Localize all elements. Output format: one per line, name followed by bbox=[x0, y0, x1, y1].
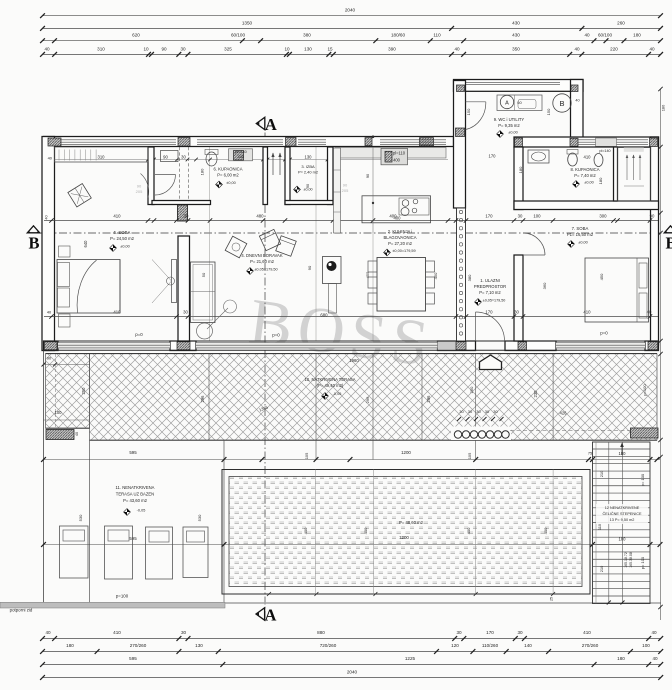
bedroom7 wardrobe bbox=[618, 148, 651, 202]
svg-text:300: 300 bbox=[599, 214, 607, 219]
svg-text:30: 30 bbox=[181, 154, 186, 159]
svg-text:p=0: p=0 bbox=[135, 332, 143, 337]
dim line y545.5 bbox=[44, 544, 661, 546]
svg-text:±0,00: ±0,00 bbox=[226, 181, 235, 185]
svg-text:12 NENATKRIVENE: 12 NENATKRIVENE bbox=[605, 506, 640, 510]
svg-text:60/100: 60/100 bbox=[231, 33, 245, 38]
svg-text:P= 7,40 m2: P= 7,40 m2 bbox=[574, 173, 596, 178]
wall hall / bedroom7 bbox=[514, 255, 523, 341]
svg-text:640: 640 bbox=[83, 240, 88, 248]
svg-text:30: 30 bbox=[517, 630, 523, 635]
bathroom6 sink bbox=[206, 152, 217, 166]
svg-text:430: 430 bbox=[512, 33, 520, 38]
svg-text:30: 30 bbox=[184, 214, 189, 219]
svg-text:30: 30 bbox=[493, 409, 498, 414]
svg-text:296: 296 bbox=[200, 395, 205, 403]
svg-text:410: 410 bbox=[583, 310, 591, 315]
hatched pillar column band (hall west, dotted) bbox=[457, 208, 466, 341]
svg-text:±0,00: ±0,00 bbox=[508, 131, 517, 135]
armchair 2 bbox=[276, 236, 297, 257]
svg-text:110/260: 110/260 bbox=[482, 643, 499, 648]
svg-text:40: 40 bbox=[649, 46, 655, 51]
svg-text:130: 130 bbox=[305, 154, 313, 159]
svg-text:450: 450 bbox=[599, 273, 604, 280]
south glazing lines bbox=[58, 342, 170, 344]
svg-text:105: 105 bbox=[304, 453, 309, 460]
svg-text:40: 40 bbox=[575, 99, 579, 103]
svg-text:P= 48,60 m2: P= 48,60 m2 bbox=[399, 520, 424, 525]
svg-text:P1= 16,50 m2: P1= 16,50 m2 bbox=[567, 232, 594, 237]
svg-text:40: 40 bbox=[454, 46, 460, 51]
svg-text:10. NATKRIVENA TERASA: 10. NATKRIVENA TERASA bbox=[304, 377, 355, 382]
svg-text:P= 43,60 m2: P= 43,60 m2 bbox=[123, 498, 148, 503]
pool inner water bbox=[229, 477, 582, 587]
svg-text:165.18.72: 165.18.72 bbox=[624, 552, 628, 568]
wall bath8 south / bedroom7 north bbox=[514, 201, 659, 210]
svg-text:pl=140: pl=140 bbox=[599, 149, 610, 153]
svg-text:75: 75 bbox=[588, 451, 592, 456]
svg-text:5. SOBA: 5. SOBA bbox=[114, 230, 131, 235]
svg-text:400: 400 bbox=[466, 527, 471, 534]
svg-text:410: 410 bbox=[113, 214, 121, 219]
fireplace bbox=[323, 257, 342, 284]
retaining wall gray band bbox=[0, 602, 225, 608]
bathroom8 sink bbox=[528, 150, 549, 163]
bottom dimension row A bbox=[43, 638, 661, 640]
kitchen top counter bbox=[335, 148, 446, 159]
svg-text:296: 296 bbox=[365, 396, 370, 403]
svg-text:90: 90 bbox=[137, 184, 142, 189]
utility north glazing bbox=[466, 81, 560, 83]
svg-text:530: 530 bbox=[78, 514, 83, 521]
svg-text:120: 120 bbox=[451, 643, 459, 648]
wall bath8 east bbox=[614, 147, 618, 201]
svg-text:150: 150 bbox=[466, 108, 471, 115]
svg-text:880: 880 bbox=[317, 630, 325, 635]
svg-text:60/100: 60/100 bbox=[598, 33, 612, 38]
bathroom8 toilet bbox=[568, 153, 578, 166]
svg-text:40: 40 bbox=[574, 46, 580, 51]
terrace appendix lines bbox=[44, 364, 91, 366]
svg-text:30: 30 bbox=[514, 310, 519, 315]
bedroom5 bed bbox=[57, 260, 120, 314]
svg-text:426: 426 bbox=[560, 411, 568, 416]
pool area left boundary bbox=[223, 440, 225, 602]
interior dim line y220.5 bbox=[44, 220, 658, 222]
svg-text:11. NENATKRIVENA: 11. NENATKRIVENA bbox=[116, 485, 155, 490]
kitchen tall cabinets bbox=[334, 148, 341, 233]
wall exterior west bbox=[42, 137, 55, 351]
bedroom7 bed bbox=[585, 258, 649, 322]
svg-text:205: 205 bbox=[342, 188, 349, 193]
svg-text:7. SOBA: 7. SOBA bbox=[572, 226, 589, 231]
interior sill dim line y159.5 bbox=[55, 159, 449, 161]
svg-text:270/260: 270/260 bbox=[130, 643, 147, 648]
stairs labels bbox=[596, 504, 648, 524]
svg-text:P= 2,40 m2: P= 2,40 m2 bbox=[298, 170, 318, 175]
svg-text:30: 30 bbox=[468, 409, 473, 414]
wall bedroom5 / living bbox=[178, 236, 190, 341]
hatched block right bbox=[631, 428, 659, 438]
svg-text:3. IZBA: 3. IZBA bbox=[301, 164, 315, 169]
svg-text:205: 205 bbox=[136, 189, 143, 194]
pool outer bbox=[222, 470, 590, 595]
svg-text:(P= 49,40 m2): (P= 49,40 m2) bbox=[317, 383, 344, 388]
svg-text:230: 230 bbox=[533, 390, 538, 398]
wall columns (hatched) bbox=[48, 138, 61, 146]
svg-text:p=0: p=0 bbox=[600, 331, 608, 336]
wall corridor / bedroom5 bbox=[148, 147, 154, 205]
svg-text:180: 180 bbox=[598, 177, 603, 184]
north glazing windows bbox=[60, 139, 176, 141]
svg-text:40: 40 bbox=[45, 630, 51, 635]
svg-text:455: 455 bbox=[365, 271, 370, 278]
entrance arrow bbox=[480, 355, 502, 370]
svg-text:110: 110 bbox=[433, 33, 441, 38]
svg-text:A: A bbox=[265, 605, 277, 624]
svg-text:380: 380 bbox=[467, 274, 472, 281]
bottom dimension row C bbox=[43, 664, 661, 666]
svg-text:170: 170 bbox=[486, 630, 494, 635]
svg-text:180: 180 bbox=[617, 656, 625, 661]
svg-text:250: 250 bbox=[469, 386, 474, 393]
svg-text:180/60: 180/60 bbox=[391, 33, 405, 38]
overhead beam projection (dashed) bbox=[179, 147, 181, 202]
svg-text:±0,00=179,59: ±0,00=179,59 bbox=[392, 249, 415, 253]
grid line x475.7 bbox=[475, 354, 477, 460]
pool grid lines bbox=[314, 470, 316, 595]
svg-text:B: B bbox=[28, 233, 39, 252]
svg-text:P= 21,60 m2: P= 21,60 m2 bbox=[250, 259, 275, 264]
svg-text:±0,00: ±0,00 bbox=[304, 188, 313, 192]
svg-text:170: 170 bbox=[485, 214, 493, 219]
svg-text:4. DNEVNI BORAVAK: 4. DNEVNI BORAVAK bbox=[241, 253, 282, 258]
svg-text:B: B bbox=[665, 233, 672, 252]
svg-text:450: 450 bbox=[433, 272, 438, 279]
TV on wall bbox=[172, 260, 177, 303]
svg-text:100: 100 bbox=[642, 643, 650, 648]
svg-text:325: 325 bbox=[224, 46, 232, 51]
svg-text:130: 130 bbox=[195, 643, 203, 648]
bottom dimension row D bbox=[43, 677, 661, 679]
svg-text:595: 595 bbox=[129, 450, 137, 455]
washing machine A bbox=[500, 95, 513, 108]
svg-text:P= 9,35 m2: P= 9,35 m2 bbox=[498, 123, 520, 128]
kitchen niche pl110 bbox=[381, 148, 408, 164]
svg-text:P= 6,00 m2: P= 6,00 m2 bbox=[217, 173, 239, 178]
bottom dimension row B bbox=[43, 651, 661, 653]
svg-text:6. KUPAONICA: 6. KUPAONICA bbox=[213, 167, 242, 172]
wall hall west upper bbox=[514, 147, 523, 210]
svg-text:410: 410 bbox=[113, 630, 121, 635]
section marker B right bbox=[664, 226, 672, 233]
svg-text:TERASA UZ BAZEN: TERASA UZ BAZEN bbox=[116, 492, 154, 497]
south wall continuous edges bbox=[44, 340, 659, 342]
svg-text:270/260: 270/260 bbox=[582, 643, 599, 648]
svg-text:90: 90 bbox=[307, 265, 312, 270]
wall exterior north (right block) bbox=[514, 137, 659, 147]
svg-text:296: 296 bbox=[426, 395, 431, 403]
sun loungers bbox=[60, 526, 89, 578]
svg-text:140: 140 bbox=[524, 643, 532, 648]
bedroom5 wardrobe bbox=[55, 147, 149, 162]
svg-text:530: 530 bbox=[197, 514, 202, 521]
wall bathroom6 south bbox=[152, 201, 211, 205]
svg-text:p=100: p=100 bbox=[116, 594, 129, 599]
svg-text:165.38.08: 165.38.08 bbox=[629, 552, 633, 568]
svg-text:680: 680 bbox=[320, 313, 328, 318]
svg-text:180: 180 bbox=[633, 33, 641, 38]
bedroom5 shelf box bbox=[161, 151, 179, 162]
armchair 3 bbox=[225, 236, 247, 258]
top dimension row 3 bbox=[43, 40, 661, 42]
svg-text:400: 400 bbox=[393, 158, 401, 163]
svg-text:1200: 1200 bbox=[399, 535, 409, 540]
svg-text:390: 390 bbox=[388, 46, 396, 51]
hatched block left bbox=[46, 430, 74, 440]
svg-text:310: 310 bbox=[97, 46, 105, 51]
svg-text:260: 260 bbox=[617, 20, 625, 25]
svg-text:180: 180 bbox=[518, 166, 523, 173]
svg-text:410: 410 bbox=[584, 155, 592, 160]
svg-text:430: 430 bbox=[512, 20, 520, 25]
svg-text:30: 30 bbox=[456, 630, 462, 635]
section line A-A vertical bbox=[264, 118, 266, 618]
stairs treads bbox=[593, 448, 651, 450]
svg-text:180: 180 bbox=[661, 104, 666, 111]
svg-text:30: 30 bbox=[183, 310, 188, 315]
svg-text:110: 110 bbox=[597, 523, 602, 530]
svg-text:90: 90 bbox=[650, 214, 655, 219]
stairs up arrow bbox=[621, 444, 623, 455]
svg-text:480: 480 bbox=[256, 214, 264, 219]
grid line x316 bbox=[315, 354, 317, 460]
section marker A top bbox=[256, 117, 265, 129]
svg-text:2040: 2040 bbox=[345, 8, 356, 13]
svg-text:±0,00: ±0,00 bbox=[584, 181, 593, 185]
entrance door arc bbox=[476, 312, 505, 341]
wall exterior north (left block) bbox=[44, 137, 454, 147]
svg-text:10: 10 bbox=[143, 46, 149, 51]
bathroom6 niche pl140 bbox=[229, 149, 253, 161]
svg-text:P= 27,20 m2: P= 27,20 m2 bbox=[388, 241, 413, 246]
svg-text:p= 100: p= 100 bbox=[640, 473, 645, 486]
svg-text:pl=140: pl=140 bbox=[235, 150, 247, 154]
svg-text:90: 90 bbox=[343, 183, 348, 188]
sliding door gray panel bbox=[438, 342, 460, 351]
plot west boundary bbox=[43, 351, 45, 608]
svg-text:ČELIČNE STEPENICE: ČELIČNE STEPENICE bbox=[602, 511, 642, 516]
dining table bbox=[377, 258, 426, 312]
svg-text:9. WC i UTILITY: 9. WC i UTILITY bbox=[494, 117, 525, 122]
utility counter bbox=[497, 95, 542, 111]
grid line x422 bbox=[421, 354, 423, 440]
svg-text:±0,00: ±0,00 bbox=[578, 241, 587, 245]
svg-text:30: 30 bbox=[181, 630, 187, 635]
radiator arrows bbox=[272, 153, 274, 175]
svg-text:±0,05=179,50: ±0,05=179,50 bbox=[254, 268, 277, 272]
svg-text:40: 40 bbox=[651, 630, 657, 635]
svg-text:180: 180 bbox=[66, 643, 74, 648]
svg-text:1960: 1960 bbox=[349, 358, 359, 363]
interior dim line y316.5 bbox=[44, 316, 658, 318]
svg-text:310: 310 bbox=[98, 154, 106, 159]
drainage circles row bbox=[451, 427, 511, 441]
svg-text:400: 400 bbox=[303, 527, 308, 534]
svg-text:410: 410 bbox=[583, 630, 591, 635]
armchair 1 bbox=[259, 229, 280, 250]
svg-text:30: 30 bbox=[518, 214, 523, 219]
svg-text:140: 140 bbox=[238, 155, 244, 159]
floor lamp bbox=[207, 308, 228, 329]
svg-text:720/260: 720/260 bbox=[320, 643, 337, 648]
svg-text:p= 100: p= 100 bbox=[640, 556, 645, 569]
top dimension row 4 bbox=[43, 53, 661, 55]
svg-text:360: 360 bbox=[542, 282, 547, 289]
svg-text:40: 40 bbox=[75, 432, 79, 436]
bedroom5 plant chair bbox=[68, 184, 91, 207]
svg-text:-0,05: -0,05 bbox=[137, 509, 146, 513]
svg-text:40: 40 bbox=[647, 310, 652, 315]
svg-text:1200: 1200 bbox=[401, 450, 411, 455]
bathroom6 door arc bbox=[155, 174, 176, 176]
svg-text:±0,05=179,50: ±0,05=179,50 bbox=[483, 299, 506, 303]
svg-text:PREDPROSTOR: PREDPROSTOR bbox=[474, 284, 506, 289]
svg-text:10: 10 bbox=[284, 46, 290, 51]
svg-text:90: 90 bbox=[161, 46, 167, 51]
stairs outline bbox=[593, 442, 651, 604]
svg-text:15: 15 bbox=[327, 46, 333, 51]
svg-text:30: 30 bbox=[485, 409, 490, 414]
south glazing gray fill bbox=[58, 343, 170, 349]
svg-text:100: 100 bbox=[533, 214, 541, 219]
wall bathroom6 east bbox=[263, 147, 268, 205]
svg-text:400: 400 bbox=[394, 216, 402, 221]
wall izba east bbox=[328, 147, 334, 205]
top dimension row 1 (2040) bbox=[43, 15, 661, 17]
svg-text:250: 250 bbox=[81, 387, 86, 395]
svg-text:210: 210 bbox=[599, 470, 604, 477]
grid line x373 bbox=[372, 354, 374, 460]
svg-text:p=0: p=0 bbox=[272, 333, 280, 338]
svg-text:P= 24,50 m2: P= 24,50 m2 bbox=[110, 236, 135, 241]
wall izba west bbox=[285, 147, 290, 205]
svg-text:1. ULAZNI: 1. ULAZNI bbox=[480, 278, 500, 283]
wall exterior east bbox=[651, 137, 659, 345]
svg-text:8. KUPAONICA: 8. KUPAONICA bbox=[570, 167, 599, 172]
svg-text:BLAGOVAONICA: BLAGOVAONICA bbox=[384, 235, 417, 240]
inner boundary x89.5 bbox=[89, 440, 91, 607]
section line B-B horizontal bbox=[30, 232, 668, 234]
east boundary line bbox=[660, 89, 662, 620]
svg-text:±0,00: ±0,00 bbox=[120, 245, 129, 249]
svg-text:p=100: p=100 bbox=[642, 384, 647, 396]
svg-text:220: 220 bbox=[610, 46, 618, 51]
wall utility block east bbox=[571, 80, 584, 147]
wall utility block north bbox=[454, 80, 584, 92]
svg-text:P= 7,10 m2: P= 7,10 m2 bbox=[479, 290, 501, 295]
svg-text:100: 100 bbox=[55, 410, 63, 415]
bathroom8 bidet bbox=[594, 154, 603, 167]
bedroom7 door arc bbox=[523, 254, 545, 256]
grid line x553 bbox=[552, 354, 554, 440]
bedroom5 door arc small bbox=[141, 174, 149, 198]
svg-text:595: 595 bbox=[129, 536, 137, 541]
svg-text:170: 170 bbox=[489, 154, 497, 159]
svg-text:30: 30 bbox=[476, 409, 481, 414]
svg-text:13 P= 9,50 m2: 13 P= 9,50 m2 bbox=[610, 518, 635, 522]
svg-text:400: 400 bbox=[543, 527, 548, 534]
section marker A bottom bbox=[256, 608, 265, 620]
svg-text:210: 210 bbox=[599, 565, 604, 572]
grid line x209 bbox=[208, 354, 210, 440]
svg-text:25: 25 bbox=[550, 597, 554, 601]
svg-text:30: 30 bbox=[180, 46, 186, 51]
svg-text:1350: 1350 bbox=[242, 20, 253, 25]
top dimension row 2 bbox=[43, 27, 661, 29]
svg-text:105: 105 bbox=[467, 453, 472, 460]
svg-text:potporni zid: potporni zid bbox=[10, 608, 33, 613]
svg-text:150: 150 bbox=[546, 108, 551, 115]
svg-text:-0,05: -0,05 bbox=[333, 392, 342, 396]
grid line x373 bbox=[372, 147, 374, 233]
svg-text:400: 400 bbox=[363, 527, 368, 534]
svg-text:380: 380 bbox=[303, 33, 311, 38]
svg-text:350: 350 bbox=[512, 46, 520, 51]
svg-text:180: 180 bbox=[200, 168, 205, 175]
dim line y457 bbox=[44, 459, 661, 461]
svg-text:90: 90 bbox=[163, 154, 168, 159]
svg-text:40: 40 bbox=[652, 656, 658, 661]
boiler B bbox=[553, 94, 571, 112]
svg-text:620: 620 bbox=[132, 33, 140, 38]
svg-text:pl=110: pl=110 bbox=[393, 151, 406, 156]
svg-text:90: 90 bbox=[47, 356, 52, 361]
utility room door arc bbox=[466, 101, 486, 103]
svg-text:40: 40 bbox=[584, 33, 590, 38]
svg-text:130: 130 bbox=[304, 46, 312, 51]
svg-text:1225: 1225 bbox=[405, 656, 416, 661]
svg-text:40: 40 bbox=[44, 46, 50, 51]
svg-text:2. KUHINJA i: 2. KUHINJA i bbox=[388, 229, 413, 234]
svg-text:2040: 2040 bbox=[347, 670, 358, 675]
sofa bbox=[191, 262, 216, 323]
wall izba south bbox=[285, 201, 333, 205]
wall exterior south band bbox=[44, 341, 59, 351]
svg-text:A: A bbox=[505, 100, 509, 106]
svg-text:50: 50 bbox=[201, 272, 206, 277]
kitchen island bbox=[362, 196, 431, 223]
svg-text:B: B bbox=[559, 99, 564, 108]
bedroom5 nightstands bbox=[59, 246, 71, 257]
wall utility block west bbox=[454, 81, 466, 209]
svg-text:595: 595 bbox=[129, 656, 137, 661]
covered terrace cross-hatch area bbox=[90, 354, 658, 440]
svg-text:30: 30 bbox=[459, 409, 464, 414]
section marker B left bbox=[27, 226, 39, 233]
svg-text:A: A bbox=[265, 115, 277, 134]
